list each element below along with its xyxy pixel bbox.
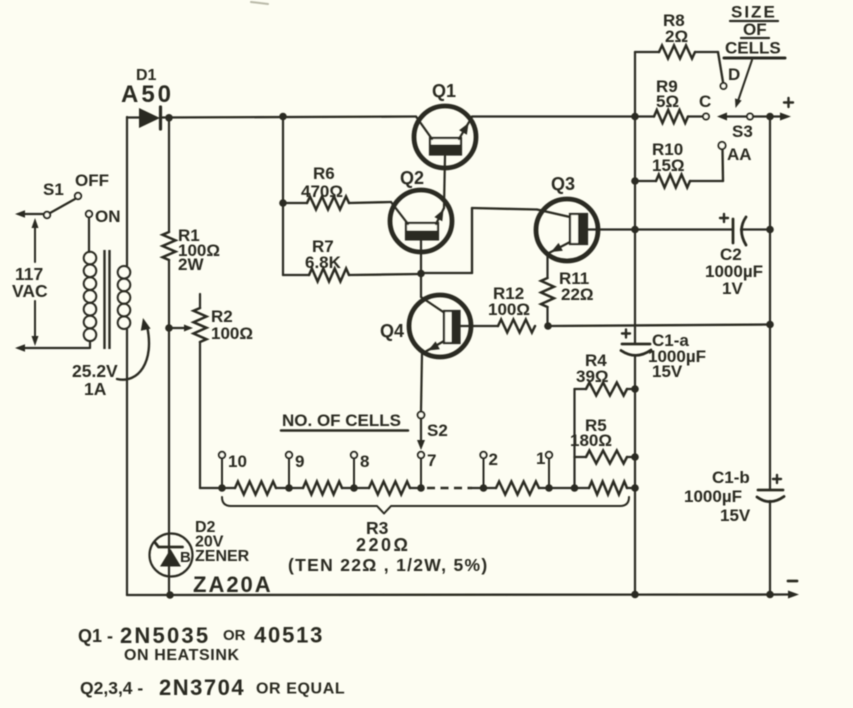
resistor R2 — [194, 308, 207, 342]
wire AC line lower — [15, 344, 89, 352]
switch S1 pivot — [44, 212, 50, 218]
label contact 2 — [489, 450, 498, 469]
label C — [699, 92, 711, 111]
svg-text:ON HEATSINK: ON HEATSINK — [124, 647, 240, 664]
wire sense vertical lower — [634, 356, 636, 595]
label AA — [727, 145, 752, 164]
svg-text:100Ω: 100Ω — [488, 300, 530, 319]
label S2 — [427, 421, 448, 440]
transistor Q4 base bar — [444, 311, 460, 344]
switch S3 contact AA — [718, 142, 725, 149]
label C1-a value — [648, 347, 706, 366]
svg-text:Q4: Q4 — [380, 321, 404, 341]
node top rail output branch — [766, 113, 774, 121]
svg-text:2N3704: 2N3704 — [159, 675, 245, 700]
svg-text:OFF: OFF — [75, 171, 109, 190]
brace R3 group — [222, 497, 629, 514]
label R2 value — [211, 324, 253, 343]
svg-text:1: 1 — [536, 449, 545, 468]
label R9 — [656, 77, 678, 96]
wire chain right end — [627, 487, 635, 489]
capacitor C1-b — [757, 490, 784, 502]
svg-text:B: B — [180, 549, 191, 566]
label R6 — [313, 164, 335, 183]
zener D2 circle — [150, 534, 193, 577]
node top rail R6 branch — [279, 113, 287, 121]
wire chain left from R2 — [200, 487, 235, 489]
label C1-b — [712, 468, 750, 487]
transistor Q2 base bar — [406, 223, 439, 240]
label R7 value — [305, 253, 342, 272]
svg-text:2: 2 — [489, 450, 498, 469]
leader SIZE OF CELLS to S3 — [735, 60, 752, 108]
svg-text:15Ω: 15Ω — [652, 156, 685, 175]
label R11 value — [561, 285, 594, 304]
wire sense vertical upper — [634, 52, 636, 344]
label R1 value — [178, 241, 220, 260]
label contact 8 — [360, 452, 369, 471]
transformer T1 core — [105, 250, 110, 349]
wire R7 to Q2 base node — [349, 274, 421, 275]
transistor Q4 emitter lead — [424, 341, 444, 353]
117 VAC dimension arrow lower — [32, 301, 39, 346]
wire R10 left lead — [635, 180, 656, 182]
transistor Q4 collector lead — [421, 297, 444, 313]
resistor R12 — [498, 320, 535, 333]
wire output vertical upper — [769, 117, 771, 491]
svg-text:2N5035: 2N5035 — [120, 623, 210, 648]
label R11 — [559, 269, 589, 288]
node sense Q3 output — [631, 226, 639, 234]
resistor R4 — [586, 383, 627, 396]
label Q1 part prefix — [78, 626, 113, 646]
transistor Q2 emitter lead — [434, 208, 444, 224]
svg-text:Q2,3,4 -: Q2,3,4 - — [80, 678, 143, 698]
resistor R11 — [541, 278, 554, 307]
wire R11 bottom lead — [546, 307, 548, 326]
switch S3 contact C — [703, 114, 709, 120]
label R10 value — [652, 156, 685, 175]
transistor Q4 circle — [409, 295, 471, 357]
label SIZE — [730, 3, 778, 22]
label S1 — [43, 180, 64, 199]
svg-text:(TEN 22Ω , 1/2W, 5%): (TEN 22Ω , 1/2W, 5%) — [288, 555, 489, 575]
label Q1 part or — [223, 627, 246, 644]
node sense R10 branch — [631, 177, 639, 185]
svg-text:2W: 2W — [178, 255, 204, 274]
svg-text:180Ω: 180Ω — [570, 431, 612, 450]
wire chain 3 — [410, 487, 421, 489]
label C1-a plus — [622, 330, 630, 338]
wire R2 wiper arrow — [171, 325, 193, 332]
label heatsink note — [124, 647, 240, 664]
label R10 — [652, 140, 683, 159]
wire chain 4 — [472, 487, 496, 489]
wire R8 left lead — [635, 51, 659, 53]
wire R5 leads — [575, 456, 636, 458]
svg-text:S3: S3 — [732, 122, 753, 141]
node R5 right — [631, 453, 639, 461]
wire Q2 base down — [420, 240, 422, 274]
wire Q3 output to C2 — [635, 228, 733, 230]
wire Q4 to R12 — [460, 325, 499, 327]
svg-text:A50: A50 — [121, 81, 174, 108]
wire secondary top to rail — [126, 117, 128, 266]
label C2 plus — [720, 214, 728, 222]
wire C2 to output rail — [741, 228, 770, 230]
wire Q4 collector up — [420, 273, 422, 297]
resistor R9 — [654, 110, 688, 123]
wire chain 2 — [342, 487, 369, 489]
svg-text:1000µF: 1000µF — [684, 487, 742, 506]
svg-text:C: C — [699, 92, 711, 111]
label OF — [741, 20, 769, 39]
transistor Q2 circle — [390, 190, 452, 252]
resistor R3 element 3 — [369, 482, 410, 495]
switch S1 OFF contact — [75, 193, 81, 199]
svg-text:15V: 15V — [720, 506, 751, 525]
wire rail down to R7 — [282, 117, 284, 276]
transistor Q3 collector lead — [537, 210, 570, 218]
label contact 10 — [228, 452, 247, 471]
svg-text:AA: AA — [727, 145, 752, 164]
resistor R3 element 1 — [235, 482, 276, 495]
label C1-a voltage — [652, 362, 683, 381]
label Q234 prefix — [80, 678, 143, 698]
label minus terminal — [788, 580, 797, 583]
transistor Q3 base bar — [570, 214, 588, 245]
label R5 value — [570, 431, 612, 450]
wire chain 5 — [539, 487, 589, 489]
wire R2 down to cell chain — [199, 342, 201, 488]
wire up to Q3 level — [471, 208, 473, 273]
svg-text:ON: ON — [95, 207, 121, 226]
wire R4 leads — [575, 388, 636, 390]
label C2 value — [705, 262, 763, 281]
transistor Q1 collector lead — [416, 117, 432, 140]
node diode output — [165, 114, 173, 122]
svg-text:1V: 1V — [722, 279, 743, 298]
svg-text:470Ω: 470Ω — [301, 182, 343, 201]
node R11 R12 junction — [544, 322, 552, 330]
label 1A — [84, 379, 107, 399]
label contact 1 — [536, 449, 545, 468]
resistor R3 element 5 — [589, 482, 627, 495]
resistor R8 — [659, 46, 695, 59]
svg-text:SIZE: SIZE — [731, 3, 777, 22]
capacitor C2 — [733, 217, 746, 245]
stray scan mark — [251, 2, 268, 4]
label R4 — [585, 351, 607, 370]
node bottom rail sense branch — [631, 591, 639, 599]
svg-text:ZENER: ZENER — [195, 548, 250, 565]
transistor Q2 collector lead — [391, 202, 408, 224]
label plus terminal — [784, 98, 793, 107]
svg-text:D: D — [728, 65, 740, 84]
label R3 detail — [288, 555, 489, 575]
svg-text:R6: R6 — [313, 164, 335, 183]
label R9 value — [656, 92, 679, 111]
switch S2 contact 10 — [219, 452, 225, 488]
svg-text:Q1: Q1 — [432, 81, 456, 101]
label R5 — [585, 416, 607, 435]
node R6 branch — [279, 199, 287, 207]
label R12 — [493, 284, 524, 303]
svg-text:Q2: Q2 — [400, 168, 424, 188]
svg-text:7: 7 — [427, 451, 436, 470]
wire bottom rail — [127, 593, 789, 596]
label ON — [95, 207, 121, 226]
resistor R5 — [586, 451, 627, 464]
svg-text:OF: OF — [743, 20, 767, 39]
label R8 value — [665, 27, 688, 46]
node chain tap 1 — [545, 484, 553, 492]
label contact 7 — [427, 451, 436, 470]
label R1 wattage — [178, 255, 204, 274]
label Q2 — [400, 168, 424, 188]
label contact 9 — [295, 452, 304, 471]
label R8 — [663, 11, 685, 30]
svg-text:40513: 40513 — [254, 623, 324, 648]
wire chain 1 — [276, 487, 303, 489]
node zener bottom rail — [166, 591, 174, 599]
node chain tap 7 — [417, 484, 425, 492]
transistor Q1 emitter lead — [459, 117, 472, 139]
label Q234 or equal — [256, 681, 345, 698]
label 25.2V — [72, 361, 118, 381]
resistor R1 — [163, 232, 176, 260]
label CELLS — [724, 39, 785, 59]
capacitor C1-a — [621, 344, 651, 355]
label NO. OF CELLS — [281, 411, 408, 431]
diode D1 — [139, 107, 161, 129]
switch S2 contact 8 — [351, 452, 357, 488]
wire secondary bottom down left side — [126, 329, 128, 595]
zener D2 cathode bar — [155, 543, 183, 548]
label R3 — [366, 518, 389, 538]
label D — [728, 65, 740, 84]
svg-text:9: 9 — [295, 452, 304, 471]
svg-text:100Ω: 100Ω — [211, 324, 253, 343]
svg-text:1A: 1A — [84, 379, 107, 399]
svg-text:C1-b: C1-b — [712, 468, 750, 487]
wire ON contact to primary — [88, 218, 90, 252]
label Q1 part alt — [254, 623, 324, 648]
svg-text:CELLS: CELLS — [725, 39, 781, 58]
svg-text:22Ω: 22Ω — [561, 285, 594, 304]
switch S2 contact 2 — [480, 452, 486, 488]
svg-text:220Ω: 220Ω — [356, 535, 410, 555]
label C1-b plus — [773, 475, 781, 483]
node Q2 base junction — [417, 270, 425, 278]
node R4 right — [631, 385, 639, 393]
label Q3 — [551, 174, 575, 194]
svg-text:OR: OR — [223, 627, 246, 644]
label ZA20A — [193, 572, 273, 597]
node bottom rail C1-b branch — [766, 591, 774, 599]
resistor R2 stub — [199, 294, 201, 308]
wire R4 R5 left vertical — [573, 389, 575, 488]
wire rail to diode — [127, 116, 140, 118]
node output rail R12 — [766, 321, 774, 329]
switch S3 contact D — [721, 83, 727, 89]
label D2 voltage — [195, 534, 224, 551]
node chain tap 8 — [350, 484, 358, 492]
svg-text:Q3: Q3 — [551, 174, 575, 194]
wire Q3 output — [587, 228, 635, 230]
node chain tap 9 — [285, 484, 293, 492]
wire chain dashed omitted section — [427, 487, 472, 489]
svg-text:ZA20A: ZA20A — [193, 572, 273, 597]
resistor R7 — [309, 269, 349, 282]
wire to Q3 collector — [472, 208, 537, 210]
top rail output arrow — [780, 113, 791, 121]
bottom rail output arrow — [788, 591, 799, 599]
node chain R5 branch — [571, 484, 579, 492]
wire R9 right lead — [688, 115, 703, 117]
svg-text:15V: 15V — [652, 362, 683, 381]
svg-text:5Ω: 5Ω — [656, 92, 679, 111]
wire R7 left lead — [283, 274, 309, 276]
svg-text:OR EQUAL: OR EQUAL — [256, 681, 345, 698]
label VAC — [12, 281, 48, 301]
label R12 value — [488, 300, 530, 319]
label C1-a — [652, 331, 689, 350]
node R2 wiper junction — [165, 324, 173, 332]
transistor Q3 circle — [536, 199, 598, 261]
zener D2 triangle — [160, 549, 181, 567]
wire base node right — [421, 272, 472, 274]
switch S1 arm — [50, 199, 75, 213]
wire top rail left section — [160, 117, 416, 118]
wire top rail Q1 to sense node — [472, 115, 635, 117]
resistor R3 element 2 — [303, 482, 342, 495]
label R3 value — [356, 535, 410, 555]
switch S3 arm — [717, 113, 747, 121]
svg-text:6.8K: 6.8K — [305, 253, 342, 272]
node chain tap 2 — [480, 484, 488, 492]
wire R10 right lead — [690, 150, 723, 181]
switch S2 arm — [417, 419, 425, 450]
svg-text:VAC: VAC — [12, 281, 48, 301]
wire R8 right lead — [695, 52, 723, 82]
switch S2 contact 9 — [286, 452, 292, 488]
label R7 — [312, 237, 334, 256]
label C1-b voltage — [720, 506, 751, 525]
label C2 — [720, 245, 742, 264]
svg-text:S1: S1 — [43, 180, 64, 199]
resistor R6 — [307, 197, 349, 210]
label Q1 part number — [120, 623, 210, 648]
switch S2 contact 1 — [546, 452, 552, 488]
label R2 — [211, 307, 233, 326]
svg-text:Q1 -: Q1 - — [78, 626, 113, 646]
transistor Q3 emitter lead — [548, 242, 570, 254]
wire R12 junction to output rail — [548, 325, 770, 327]
wire R6 to Q2 — [349, 202, 391, 203]
label Q234 part number — [159, 675, 245, 700]
wire R1 to zener — [168, 260, 170, 595]
node top rail sense branch — [631, 113, 639, 121]
switch S1 ON contact — [86, 211, 92, 217]
label R1 — [178, 226, 200, 245]
svg-text:10: 10 — [228, 452, 247, 471]
wire R9 left lead — [635, 115, 654, 117]
wire Q1 base down — [444, 155, 445, 208]
label C1-b value — [684, 487, 742, 506]
label D1 — [136, 67, 157, 84]
label Q4 — [380, 321, 404, 341]
wire diode node down to R1 — [168, 118, 170, 232]
label D2 — [195, 519, 216, 536]
svg-text:8: 8 — [360, 452, 369, 471]
label 117 — [15, 264, 43, 284]
switch S3 pivot — [747, 114, 753, 120]
node chain tap 10 — [218, 484, 226, 492]
resistor R3 element 4 — [496, 482, 539, 495]
transformer adjustable-tap arrow — [117, 318, 151, 380]
svg-text:39Ω: 39Ω — [576, 367, 609, 386]
svg-text:NO. OF CELLS: NO. OF CELLS — [282, 411, 401, 430]
svg-text:S2: S2 — [427, 421, 448, 440]
wire Q3 emitter down — [546, 253, 548, 278]
transistor Q1 circle — [414, 106, 476, 168]
wire output vertical lower — [769, 501, 771, 595]
switch S2 contact 7 — [418, 452, 424, 488]
wire AC line upper — [15, 210, 44, 218]
node chain right — [631, 484, 639, 492]
label S3 — [732, 122, 753, 141]
wire top rail right section — [753, 115, 782, 117]
wire Q4 emitter down to S2 — [421, 353, 422, 411]
transistor Q1 base bar — [430, 138, 462, 155]
resistor R10 — [656, 175, 690, 188]
wire R6 left lead — [283, 202, 307, 204]
label B terminal — [180, 549, 191, 566]
label OFF — [75, 171, 109, 190]
label Q1 — [432, 81, 456, 101]
svg-text:25.2V: 25.2V — [72, 361, 118, 381]
label A50 — [121, 81, 174, 108]
117 VAC dimension arrow upper — [32, 218, 39, 262]
svg-text:2Ω: 2Ω — [665, 27, 688, 46]
label R4 value — [576, 367, 609, 386]
transformer T1 primary winding — [84, 252, 97, 348]
transformer T1 secondary winding — [118, 266, 131, 329]
switch S2 pivot — [418, 412, 425, 419]
node output rail C2 — [766, 226, 774, 234]
label D2 zener — [195, 548, 250, 565]
label R6 value — [301, 182, 343, 201]
label C2 voltage — [722, 279, 743, 298]
